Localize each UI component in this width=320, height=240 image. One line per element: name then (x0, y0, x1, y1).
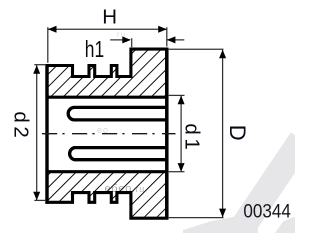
watermark swoosh band (bottom-right) (222, 132, 313, 240)
left face wall (45, 64, 48, 204)
dimension d2: bottom extension (34, 199, 46, 201)
dimension H: line (48, 28, 167, 30)
dimension d1: bottom arrow (178, 163, 185, 172)
dimension d2: top extension (34, 64, 46, 66)
dimension d1: top arrow (178, 96, 185, 105)
svg-text:d1: d1 (181, 123, 204, 153)
dimension d1: line (180, 96, 182, 172)
dimension H: left arrow (48, 26, 57, 33)
dimension d2: bottom arrow (33, 192, 40, 201)
svg-text:D: D (225, 125, 250, 141)
dimension h1: extension line (131, 38, 133, 47)
centerline (axis) (42, 133, 176, 135)
dimension H: extension line left (47, 27, 49, 63)
dimension H: right arrow (158, 26, 167, 33)
dimension D: top arrow (219, 50, 226, 59)
lower slot (rounded end) (70, 148, 167, 160)
dimension d1: bottom extension (169, 171, 185, 173)
svg-text:H: H (102, 5, 117, 28)
svg-text:ео: ео (97, 125, 109, 135)
top flange + boss section (hatched) (47, 49, 167, 97)
dimension D: top extension (169, 48, 224, 50)
right face wall (165, 48, 169, 220)
watermark bottom sliver (183, 216, 258, 234)
svg-text:ебео.ru: ебео.ru (105, 183, 146, 195)
dimension D: line (222, 50, 224, 218)
dimension H: extension line right (166, 27, 168, 46)
watermark corner piece (275, 217, 295, 234)
dimension d2: top arrow (33, 65, 40, 74)
dimension h1: left arrow (pointing right) (122, 36, 131, 43)
svg-text:ru: ru (117, 30, 126, 39)
dimension D: bottom extension (169, 217, 224, 219)
dimension h1: leader line left (110, 39, 130, 41)
bottom flange + boss section (hatched) (47, 172, 167, 219)
svg-text:h1: h1 (85, 36, 104, 62)
dimension D: bottom arrow (219, 209, 226, 218)
dimension h1: tail line right (167, 39, 185, 41)
dimension d2: line (36, 65, 38, 200)
upper slot (rounded end) (68, 107, 167, 119)
svg-text:00344: 00344 (243, 199, 290, 221)
dimension h1: right arrow (pointing left) (167, 36, 176, 43)
dimension d1: top extension (169, 94, 185, 96)
svg-text:d2: d2 (9, 111, 32, 141)
